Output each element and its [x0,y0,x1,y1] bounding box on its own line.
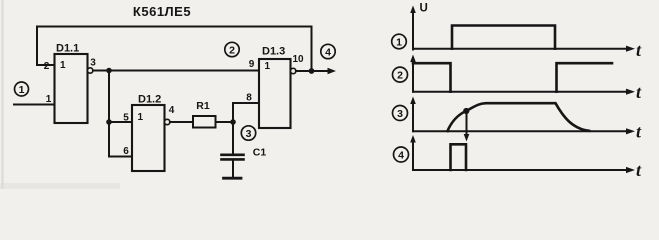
waveform 3 (RC charge/discharge curve) [448,103,590,131]
svg-text:10: 10 [292,54,304,65]
node 4 (waveform label) [394,147,409,162]
wire: R1 to node [216,121,234,123]
t axis row 4 [413,160,642,180]
capacitor C1 [222,147,267,160]
wire: D1.3 output to output arrow [296,70,312,72]
svg-text:4: 4 [169,105,175,116]
svg-text:1: 1 [265,61,271,72]
svg-text:3: 3 [397,108,403,120]
resistor R1 [193,100,216,128]
junction node at output of D1.1 [106,68,112,74]
svg-text:1: 1 [396,36,402,48]
wire: input to D1.1 pin 1 [14,104,55,106]
svg-text:D1.3: D1.3 [262,46,285,58]
svg-text:1: 1 [46,94,52,105]
svg-text:8: 8 [246,93,252,104]
svg-text:C1: C1 [253,147,267,159]
axis row 3 (vertical) [410,97,416,132]
svg-text:4: 4 [325,46,331,58]
node 1 (waveform label) [392,34,407,49]
svg-text:2: 2 [229,44,235,56]
svg-text:2: 2 [44,61,50,72]
wire: D1.2 output to R1 [170,121,193,123]
t axis row 3 [413,122,642,142]
U axis (vertical) [410,3,428,50]
svg-text:3: 3 [246,128,252,140]
wire: feedback from output node up, across top, down to D1.1 pin 2 [37,27,312,72]
arrow from dot down to waveform 4 [464,111,470,142]
node 4 (circle label) [321,44,335,58]
waveform 4 pulse [451,144,467,170]
svg-text:U: U [420,3,428,15]
svg-text:9: 9 [249,59,255,70]
wire: D1.1 output to D1.3 pin 9 [93,70,259,72]
axis row 2 (vertical) [410,55,416,92]
node 1 (input terminal circle) [15,82,29,96]
svg-text:R1: R1 [196,100,210,112]
t axis row 1 [413,40,642,60]
svg-text:2: 2 [397,69,403,81]
gate D1.1 [55,43,93,124]
threshold dot on curve [463,108,469,114]
svg-text:3: 3 [90,58,96,69]
junction node at output [309,68,315,74]
svg-text:5: 5 [123,113,129,124]
gate D1.3 [259,46,296,129]
wire: capacitor to ground [232,159,234,177]
svg-text:1: 1 [138,112,144,123]
waveform 2 [413,63,451,91]
wire: up and right to D1.3 pin 8 [233,103,259,122]
node 2 (waveform label) [393,67,408,82]
svg-text:D1.1: D1.1 [56,43,79,55]
junction node R1/C1/pin8 [230,119,236,125]
ground [224,177,242,180]
gate D1.2 [132,94,170,172]
node 3 (waveform label) [393,106,408,121]
svg-text:К561ЛЕ5: К561ЛЕ5 [133,4,191,19]
axis row 4 (vertical) [410,135,416,170]
wire: vertical branch down to D1.2 inputs [108,71,110,157]
svg-text:1: 1 [60,60,66,71]
wire: to pin 6 [109,156,132,158]
t axis row 2 [413,82,642,102]
svg-text:D1.2: D1.2 [138,94,161,106]
junction node at D1.2 pin 5 branch [106,119,112,125]
node 3 (circle label) [241,126,255,140]
node 2 (circle label) [225,42,239,56]
wire: node down to capacitor [232,122,234,154]
svg-text:1: 1 [19,84,25,96]
svg-text:6: 6 [123,146,129,157]
wire: to pin 5 [109,121,132,123]
waveform 1 pulse [452,26,555,49]
svg-text:4: 4 [398,149,404,161]
output arrow [312,68,337,74]
